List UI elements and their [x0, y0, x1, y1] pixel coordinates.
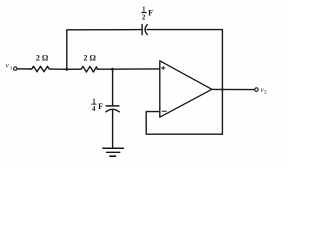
node B junction dot — [111, 68, 114, 71]
output wire apex to terminal v2 — [212, 88, 255, 90]
svg-text:4: 4 — [92, 106, 96, 113]
svg-text:F: F — [148, 8, 153, 17]
svg-text:2: 2 — [142, 15, 146, 22]
capacitor C1 1/2 F right curved plate — [145, 25, 147, 35]
fraction bar of 1/4 — [92, 103, 96, 105]
wire C1 to right rail and down to output node and bottom loop — [147, 30, 222, 135]
wire v1 to R1 — [17, 68, 30, 70]
svg-text:2 Ω: 2 Ω — [84, 54, 97, 63]
terminal v2 — [255, 88, 259, 92]
svg-text:1: 1 — [142, 6, 146, 13]
terminal v1 — [14, 67, 17, 71]
svg-text:2 Ω: 2 Ω — [36, 54, 49, 63]
ground symbol — [103, 147, 123, 149]
wire R2 to node B — [97, 68, 112, 70]
op-amp U1 triangle — [160, 61, 212, 117]
op-amp minus input sign — [162, 110, 166, 112]
wire bottom feedback to minus input — [146, 112, 222, 135]
capacitor C2 1/4 F top plate — [106, 105, 119, 107]
wire node B to op-amp + input — [113, 68, 160, 70]
op-amp plus input sign — [162, 66, 165, 69]
output node junction dot — [221, 88, 224, 91]
capacitor C1 1/2 F left plate — [141, 25, 143, 35]
resistor R1 2ohm — [30, 66, 51, 72]
wire node B down to capacitor C2 — [112, 69, 114, 106]
fraction bar of 1/2 — [142, 12, 147, 14]
wire node A up and to capacitor C1 left plate — [67, 30, 142, 70]
wire R1 to node A — [51, 68, 67, 70]
resistor R2 2ohm — [80, 66, 97, 72]
svg-text:1: 1 — [10, 65, 13, 71]
wire C2 to ground — [112, 110, 114, 149]
node A junction dot — [65, 68, 68, 71]
capacitor C2 1/4 F bottom curved plate — [106, 109, 119, 112]
svg-text:2: 2 — [264, 90, 267, 96]
wire R2 to node B — [67, 68, 80, 70]
svg-text:F: F — [98, 102, 103, 111]
svg-text:1: 1 — [92, 98, 96, 105]
